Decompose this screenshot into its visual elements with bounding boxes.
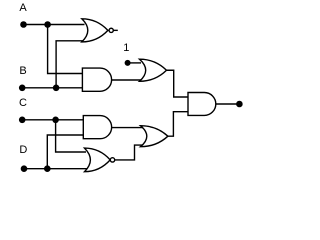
wire D branch up to AND U4 bottom input [47, 135, 83, 169]
svg-text:C: C [19, 97, 27, 109]
node A junction dot [44, 21, 51, 28]
node A terminal dot [20, 21, 27, 28]
wire OR U7 output to AND U6 bottom input [168, 112, 188, 137]
output terminal dot [236, 101, 243, 108]
svg-text:1: 1 [123, 42, 129, 54]
wire NOR U5 output to OR U7 bottom input [115, 145, 143, 160]
nor-gate U1 body [82, 19, 108, 42]
and-gate U4 body [83, 116, 111, 139]
wire D row [21, 168, 88, 170]
node B junction dot [53, 85, 60, 92]
wire B branch up to NOR U1 bottom input [56, 41, 84, 88]
svg-text:A: A [19, 2, 27, 14]
wire A row [21, 24, 85, 26]
wire C row [20, 119, 83, 121]
nor-gate U5 body [85, 148, 111, 172]
wire AND U6 output [216, 103, 237, 105]
node C junction dot [52, 117, 59, 124]
svg-text:B: B [19, 65, 26, 77]
wire A branch down to AND U2 top input [48, 25, 83, 74]
wire constant 1 to OR U3 top input [128, 62, 141, 64]
node D terminal dot [21, 165, 28, 172]
wire NOR U1 output stub [113, 29, 117, 31]
node C terminal dot [19, 117, 26, 124]
constant 1 terminal dot [125, 60, 131, 66]
svg-text:D: D [19, 144, 27, 156]
wire OR U3 output to AND U6 top input [167, 70, 189, 97]
wire AND U2 output to OR U3 [112, 79, 143, 81]
nor-gate U1 bubble [109, 28, 113, 32]
wire AND U4 output to OR U7 top input [112, 127, 144, 129]
or-gate U3 body [140, 59, 167, 81]
and-gate U2 body [82, 68, 111, 91]
or-gate U7 body [141, 126, 168, 147]
wire C branch down to NOR U5 top input [56, 120, 86, 152]
node D junction dot [44, 165, 51, 172]
wire B row [20, 87, 82, 89]
nor-gate U5 bubble [110, 158, 114, 162]
node B terminal dot [19, 85, 26, 92]
and-gate U6 body [188, 93, 216, 116]
